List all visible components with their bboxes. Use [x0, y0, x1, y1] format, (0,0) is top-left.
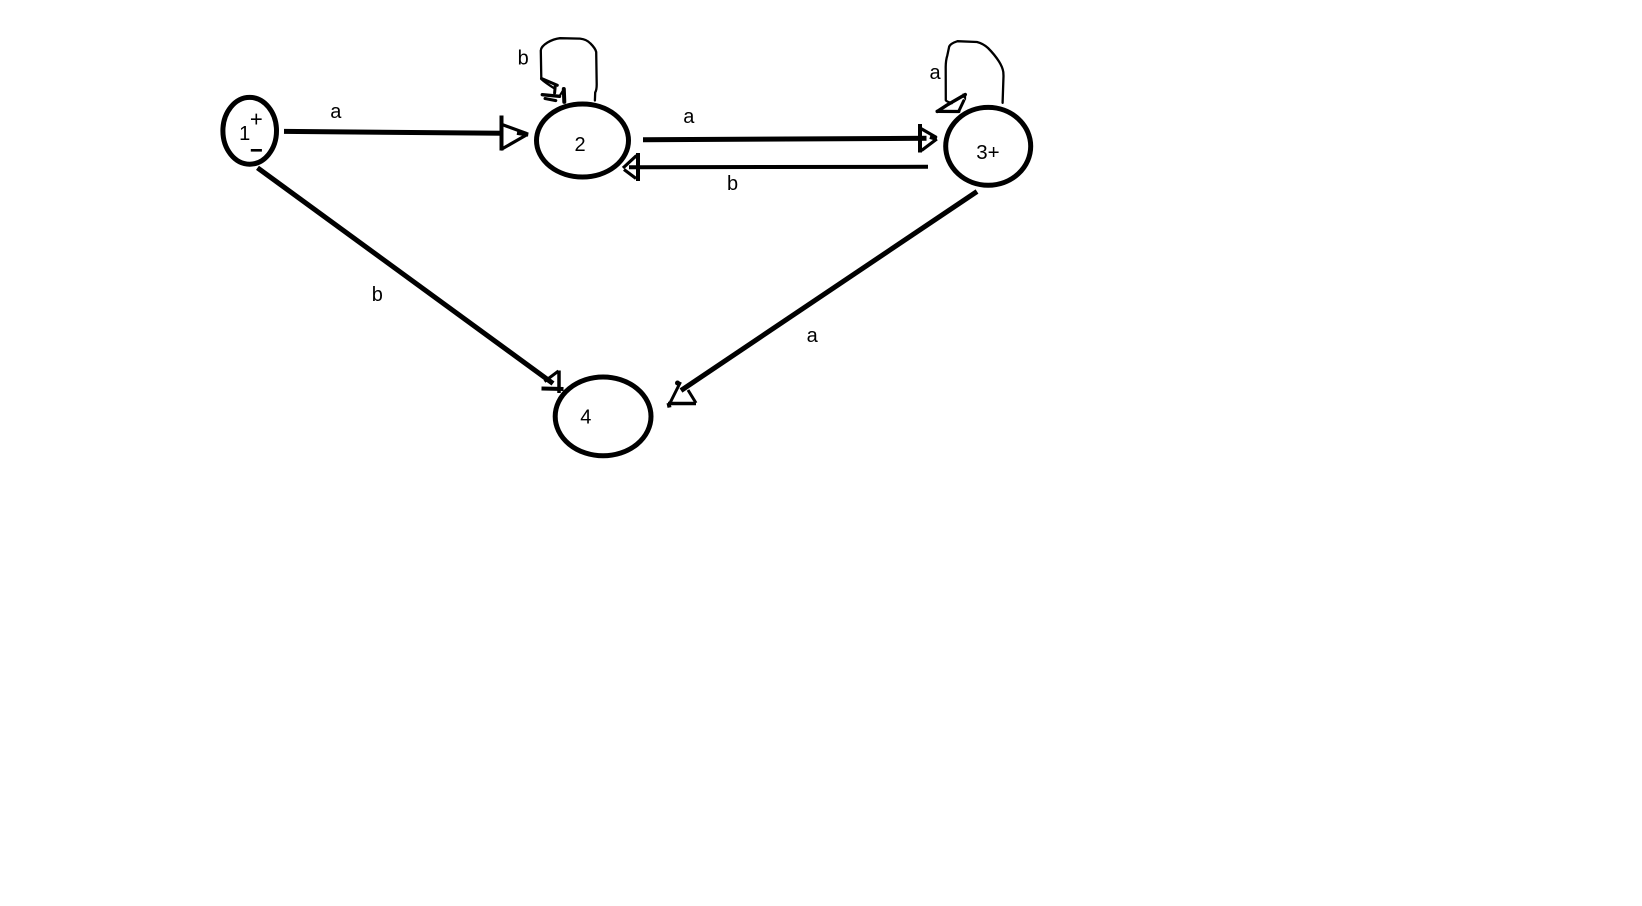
edge 1->2 label "a"	[330, 101, 342, 123]
edge 3->2 arrowhead (open triangle, pointing left)	[623, 153, 638, 181]
svg-text:1: 1	[239, 123, 250, 145]
state 1 label "1"	[239, 123, 250, 145]
svg-text:3+: 3+	[976, 141, 999, 164]
self-loop 3 label "a"	[929, 62, 941, 84]
state 4 ellipse	[555, 377, 651, 456]
self-loop 2 label "b"	[518, 48, 529, 70]
edge 3->4 arrowhead (open triangle, pointing down-left)	[668, 381, 696, 408]
self-loop 3 arrowhead	[937, 94, 966, 112]
svg-text:b: b	[372, 284, 383, 306]
edge 3->4 shaft	[681, 192, 977, 391]
edge 3->2 label "b"	[727, 173, 738, 195]
svg-text:a: a	[807, 325, 819, 347]
self-loop on state 2	[541, 38, 597, 100]
state 2 label "2"	[574, 134, 585, 156]
edge 2->3 arrowhead (open triangle)	[920, 124, 937, 153]
state 1 subscript minus bar	[251, 149, 262, 152]
svg-text:a: a	[929, 62, 941, 84]
svg-text:2: 2	[574, 134, 585, 156]
edge 1->4 shaft	[258, 168, 554, 384]
svg-text:4: 4	[580, 407, 591, 429]
edge 1->2 arrowhead (open triangle)	[500, 116, 528, 151]
svg-text:a: a	[683, 106, 695, 128]
edge 3->2 shaft	[629, 165, 928, 169]
self-loop on state 3	[946, 41, 1004, 103]
edge 2->3 shaft	[643, 138, 927, 139]
svg-text:+: +	[250, 107, 263, 132]
self-loop 2 arrowhead	[542, 79, 565, 102]
edge 1->2 shaft	[284, 131, 504, 133]
state 4 label "4"	[580, 407, 591, 429]
state 1 (start/final marked) ellipse	[223, 97, 277, 164]
edge 1->4 label "b"	[372, 284, 383, 306]
edge 2->3 label "a"	[683, 106, 695, 128]
svg-text:b: b	[518, 48, 529, 70]
state 1 superscript "+"	[250, 107, 263, 132]
state 2 ellipse	[537, 104, 629, 177]
svg-text:a: a	[330, 101, 342, 123]
state 3 label "3+"	[976, 141, 999, 164]
state 3 (final) circle	[946, 107, 1031, 185]
edge 1->4 arrowhead (open triangle, pointing down-right)	[542, 371, 564, 394]
edge 3->4 label "a"	[807, 325, 819, 347]
svg-text:b: b	[727, 173, 738, 195]
